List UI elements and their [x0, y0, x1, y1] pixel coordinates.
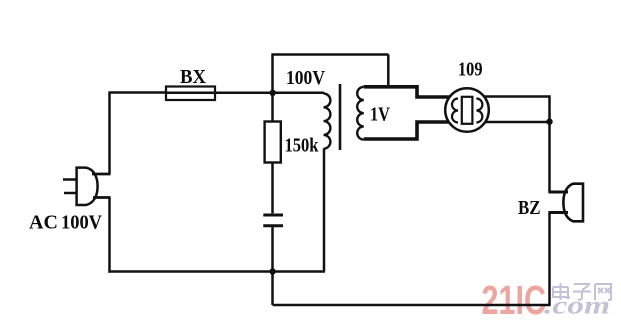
- wire: tube right bottom to node B: [485, 121, 550, 124]
- wire: secondary loop bottom (thick) from tube: [364, 122, 449, 139]
- wire: left vertical upper (plug top to top rail): [108, 93, 111, 175]
- svg-text:BZ: BZ: [518, 197, 541, 219]
- svg-text:BX: BX: [180, 66, 207, 88]
- capacitor C bottom plate: [263, 224, 283, 227]
- plug P bottom lead stub: [93, 196, 111, 199]
- plug P lower prong: [64, 192, 77, 195]
- node B junction dot: [546, 119, 552, 125]
- wire: right vertical buzzer to bottom rail: [548, 213, 551, 306]
- wire: node A up to top link: [271, 55, 274, 93]
- svg-text:1V: 1V: [370, 105, 390, 126]
- tube 109 left heater element: [452, 99, 458, 123]
- wire: primary bottom lead down: [323, 149, 326, 272]
- wire: resistor to capacitor: [271, 163, 274, 214]
- wire: right rail down to buzzer: [548, 122, 551, 192]
- svg-text:100V: 100V: [286, 68, 325, 89]
- transformer T primary winding: [324, 94, 331, 149]
- node A junction dot: [270, 90, 276, 96]
- wire: top link horizontal: [271, 53, 388, 56]
- wire: node A down to resistor: [271, 93, 274, 122]
- wire: bottom rail lower: [273, 304, 551, 307]
- tube 109 envelope circle: [445, 88, 489, 132]
- plug P top lead stub: [92, 173, 111, 176]
- wire: tube right top to right rail: [485, 97, 550, 122]
- buzzer BZ body: [563, 184, 583, 222]
- wire: left vertical lower (plug bottom to bottom rail): [108, 198, 111, 273]
- wire: top rail right (fuse to node A): [215, 92, 273, 95]
- buzzer BZ top stub: [548, 191, 568, 194]
- tube 109 inner electrode rectangle: [462, 97, 473, 124]
- fuse BX through-wire: [166, 92, 215, 95]
- transformer T core: [339, 84, 342, 150]
- transformer T secondary winding: [357, 87, 364, 140]
- wire: top rail left (corner to fuse): [108, 91, 166, 94]
- svg-text:109: 109: [458, 60, 483, 81]
- svg-text:21IC: 21IC: [482, 277, 547, 323]
- capacitor C top plate: [263, 214, 283, 217]
- watermark 电子网: [553, 283, 611, 300]
- buzzer BZ bottom stub: [548, 211, 568, 214]
- tube 109 right heater element: [476, 99, 482, 123]
- wire: capacitor bottom lead: [271, 227, 274, 272]
- svg-text:100V: 100V: [61, 212, 103, 234]
- svg-text:AC: AC: [29, 212, 58, 234]
- wire: top link down to secondary loop: [387, 55, 390, 87]
- wire: bottom rail upper: [108, 270, 325, 273]
- plug P upper prong: [63, 178, 77, 181]
- svg-text:150k: 150k: [285, 136, 319, 157]
- wire: stub node C down to lower rail: [271, 272, 274, 305]
- fuse BX body: [166, 87, 215, 101]
- wire: secondary loop top (thick) to tube: [364, 87, 450, 97]
- plug P body: [77, 168, 98, 205]
- node C junction dot: [269, 268, 275, 274]
- resistor 150k body: [265, 122, 281, 163]
- wire: node A right to transformer primary top: [273, 92, 325, 95]
